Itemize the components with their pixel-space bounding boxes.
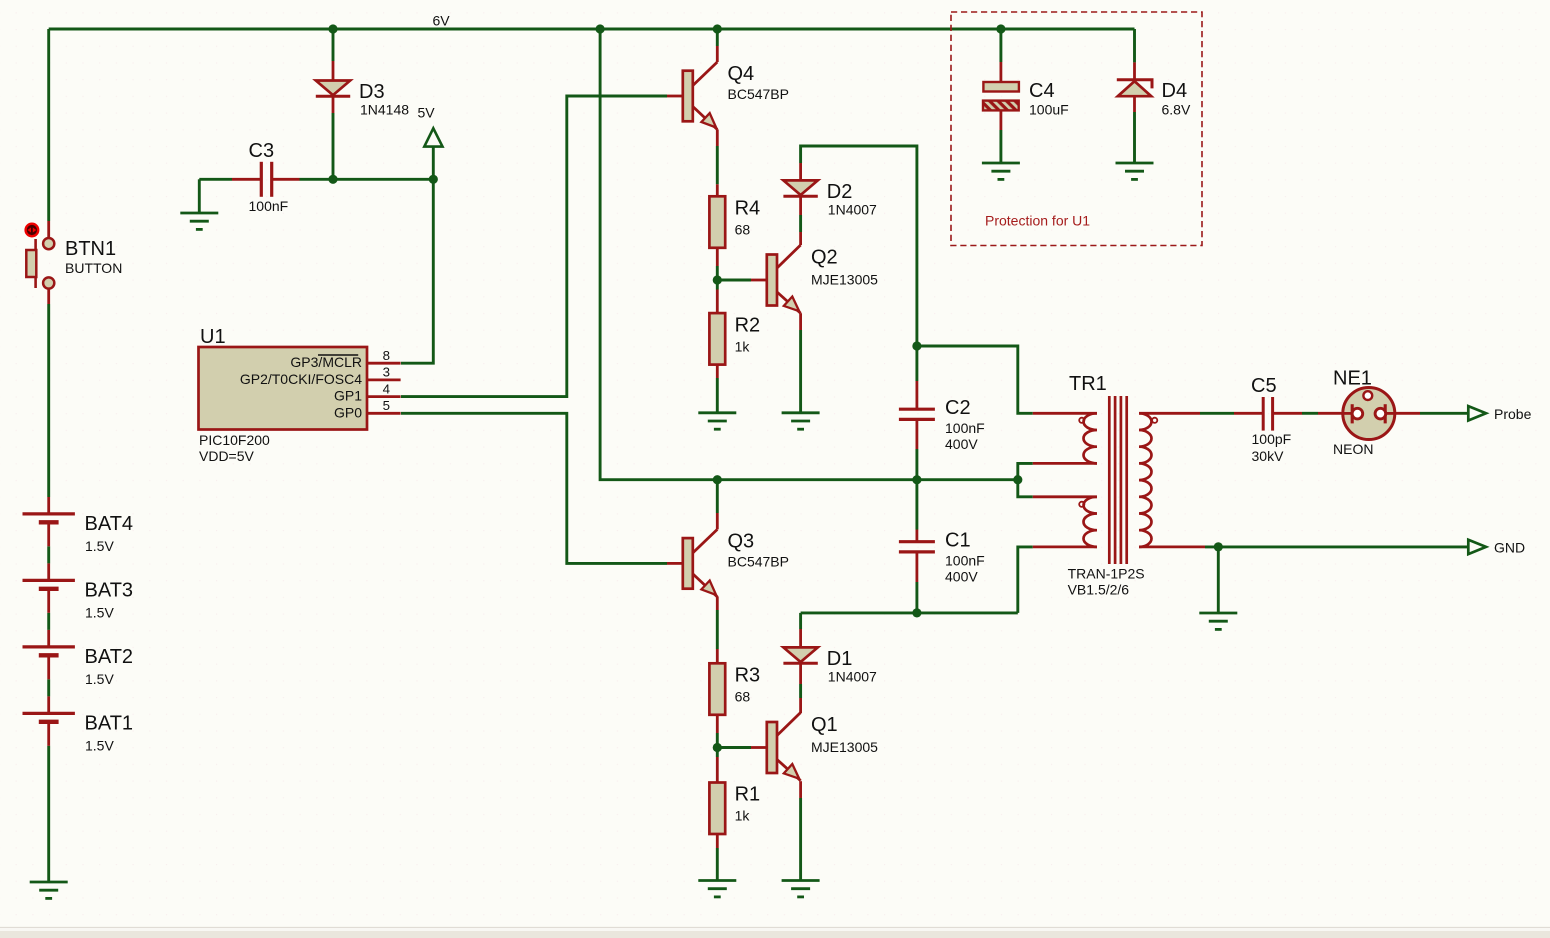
svg-text:68: 68 [735,689,751,705]
junction C1-D1net [912,608,921,617]
junction R3-R1-Q1 [713,743,722,752]
wire node to R1 [716,751,719,757]
svg-text:1N4148: 1N4148 [360,102,409,118]
svg-text:400V: 400V [945,569,978,585]
battery BAT2 [23,646,134,668]
svg-text:C1: C1 [945,529,971,551]
svg-text:BC547BP: BC547BP [728,553,789,569]
wire C1 lower [915,582,918,613]
diode D1 [783,647,852,670]
wire prim2 top lead [1018,480,1033,497]
capacitor C1 [899,529,971,552]
IC U1 PIC10F200 [199,326,368,430]
wire R3 to node [716,733,719,744]
svg-text:C2: C2 [945,397,971,419]
wire 6V top rail [49,28,1135,31]
svg-text:BAT4: BAT4 [85,513,134,535]
svg-text:1.5V: 1.5V [85,604,114,620]
wire sec bottom gnd drop [1217,547,1220,613]
svg-text:PIC10F200: PIC10F200 [199,432,270,448]
ground C4 [982,163,1020,179]
resistor R1 [709,783,760,835]
svg-text:100uF: 100uF [1029,102,1069,118]
svg-text:BC547BP: BC547BP [728,86,789,102]
wire left rail to button [47,29,50,221]
svg-text:C5: C5 [1251,375,1277,397]
transformer TR1 [1069,373,1157,564]
ground TR1 secondary [1199,613,1237,629]
svg-text:5: 5 [383,398,390,413]
svg-text:100nF: 100nF [945,420,985,436]
svg-text:GP3/MCLR: GP3/MCLR [290,354,362,370]
svg-text:3: 3 [383,365,390,380]
transistor Q1 [767,713,801,781]
annotation box Protection for U1 [951,12,1202,246]
svg-text:100nF: 100nF [945,552,985,568]
wire BAT2-BAT1 [47,679,50,696]
resistor R3 [709,663,760,715]
svg-text:R4: R4 [735,198,761,220]
wire node to Q2 base [717,279,751,282]
wire Q2 emitter to gnd [799,330,802,413]
wire Q3 collector to rail [716,480,719,513]
wire D4 bottom [1133,112,1136,163]
junction rail-Q3 [713,475,722,484]
wire prim1 bottom lead [1018,463,1033,479]
svg-text:BUTTON: BUTTON [65,260,122,276]
wire 5V to pin8 [401,179,433,363]
wire NE1 to probe [1420,412,1468,415]
svg-text:1N4007: 1N4007 [828,202,877,218]
diode D2 [783,180,852,203]
resistor R4 [709,196,760,248]
svg-text:GP1: GP1 [334,388,362,404]
svg-text:D3: D3 [359,81,385,103]
svg-text:R2: R2 [735,314,761,336]
ground D4 [1116,163,1154,179]
svg-text:TR1: TR1 [1069,373,1107,395]
wire BAT3-BAT2 [47,613,50,630]
wire D2-Q2 link [799,215,802,232]
power flag 5V [418,105,443,147]
junction rail-x600 [596,24,605,33]
svg-text:D4: D4 [1162,80,1188,102]
svg-text:BAT3: BAT3 [85,579,134,601]
wire 5V arrow shaft [432,147,435,180]
svg-text:BTN1: BTN1 [65,238,116,260]
svg-text:VB1.5/2/6: VB1.5/2/6 [1068,581,1130,597]
svg-text:MJE13005: MJE13005 [811,271,878,287]
svg-text:BAT2: BAT2 [85,646,134,668]
wire C2 mid to TR1 tap [917,346,1033,413]
svg-text:1.5V: 1.5V [85,538,114,554]
svg-text:BAT1: BAT1 [85,712,134,734]
svg-text:6.8V: 6.8V [1162,102,1191,118]
diode D3 [316,81,385,104]
svg-text:NE1: NE1 [1333,368,1372,390]
resistor R2 [709,313,760,365]
junction rail-C4 [996,24,1005,33]
wire Q4 emitter to R4 [716,146,719,184]
wire C2-C1 mid [915,449,918,530]
wire D2 to C2 top net [801,146,917,381]
capacitor C5 [1251,375,1277,431]
wire C3 gnd drop [198,179,201,213]
wire node to Q1 base [717,746,751,749]
wire sec top lead a [1200,412,1234,415]
wire Q4 collector up [716,29,719,46]
wire button to battery [47,304,50,497]
transistor Q3 [683,529,718,597]
transistor Q4 [683,62,718,130]
junction 5Vnet-D3 [328,175,337,184]
svg-text:Q3: Q3 [728,530,755,552]
svg-text:400V: 400V [945,436,978,452]
svg-text:1.5V: 1.5V [85,671,114,687]
svg-text:1k: 1k [735,808,751,824]
svg-text:Protection for U1: Protection for U1 [985,213,1090,229]
battery BAT3 [23,579,134,601]
ground Q2 [782,413,820,429]
wire C4 top [999,29,1002,62]
svg-text:8: 8 [383,348,390,363]
ground Q1 [782,881,820,897]
svg-text:D2: D2 [827,181,853,203]
wire D1-Q1 link [799,684,802,698]
wire R4 to node [716,266,719,277]
capacitor C2 [899,397,971,420]
wire D4 top [1133,29,1136,62]
wire C4 bottom [999,130,1002,163]
svg-text:4: 4 [383,381,390,396]
junction rail-Q4 [713,24,722,33]
junction rail-TR1tap [1013,475,1022,484]
svg-text:R3: R3 [735,665,761,687]
wire R1 to gnd [716,848,719,881]
junction rail-C2C1 [912,475,921,484]
capacitor C3 [249,140,275,197]
ground R2 [698,413,736,429]
svg-text:GND: GND [1494,540,1525,556]
junction GNDnet [1214,542,1223,551]
svg-text:GP2/T0CKI/FOSC4: GP2/T0CKI/FOSC4 [240,371,362,387]
svg-text:VDD=5V: VDD=5V [199,448,255,464]
svg-text:100nF: 100nF [249,198,289,214]
svg-text:Probe: Probe [1494,406,1532,422]
wire GP0 to Q3 base [401,413,667,563]
wire D1 top [799,613,802,629]
battery BAT4 [23,513,134,535]
wire 5V node horiz [300,178,434,181]
svg-text:C3: C3 [249,140,275,162]
svg-text:R1: R1 [735,784,761,806]
capacitor C4 [983,80,1055,110]
junction 5Vnet-arrow [429,175,438,184]
wire C1 bottom rail [801,611,1018,614]
wire BAT1 to ground [47,746,50,882]
junction rail-D3 [328,24,337,33]
transistor Q2 [767,245,801,313]
wire node to R2 [716,284,719,290]
zener diode D4 [1117,80,1187,102]
wire R2 to gnd [716,378,719,413]
wire prim2 bottom lead [1018,547,1033,613]
ground C3 [180,213,218,229]
terminal Probe [1468,406,1531,422]
svg-text:30kV: 30kV [1252,448,1285,464]
wire Q1 emitter to gnd [799,798,802,881]
ground battery [30,882,68,898]
battery BAT1 [23,712,134,734]
wire sec bottom to GND arrow [1205,545,1468,548]
svg-text:5V: 5V [418,105,436,121]
svg-text:1k: 1k [735,338,751,354]
wire C5 to NE1 [1302,412,1318,415]
svg-text:Q4: Q4 [728,63,755,85]
wire red lead stubs [47,221,50,238]
junction R4-R2-Q2 [713,275,722,284]
svg-text:U1: U1 [200,326,226,348]
neon lamp NE1 [1333,368,1396,440]
svg-text:6V: 6V [433,13,451,29]
svg-text:1N4007: 1N4007 [828,669,877,685]
wire GP1 to Q4 base [401,96,667,397]
wire D3 to 5V node [332,113,335,179]
svg-text:Q2: Q2 [811,246,838,268]
svg-text:100pF: 100pF [1252,431,1292,447]
wire Q3 emitter to R3 [716,610,719,649]
svg-text:NEON: NEON [1333,441,1373,457]
terminal GND [1468,540,1525,556]
svg-text:TRAN-1P2S: TRAN-1P2S [1068,566,1145,582]
svg-text:MJE13005: MJE13005 [811,739,878,755]
wire rail drop x600 [600,29,1018,480]
svg-text:Q1: Q1 [811,714,838,736]
wire BAT4-BAT3 [47,546,50,563]
BTN1 active indicator [26,224,39,237]
svg-text:C4: C4 [1029,80,1055,102]
svg-text:1.5V: 1.5V [85,737,114,753]
button BTN1 [26,238,116,289]
junction C2-D2net [912,341,921,350]
wire C3 left [199,178,232,181]
svg-text:68: 68 [735,222,751,238]
svg-text:D1: D1 [827,648,853,670]
wire rail to D3 [332,29,335,61]
svg-text:GP0: GP0 [334,404,362,420]
ground R1 [698,881,736,897]
